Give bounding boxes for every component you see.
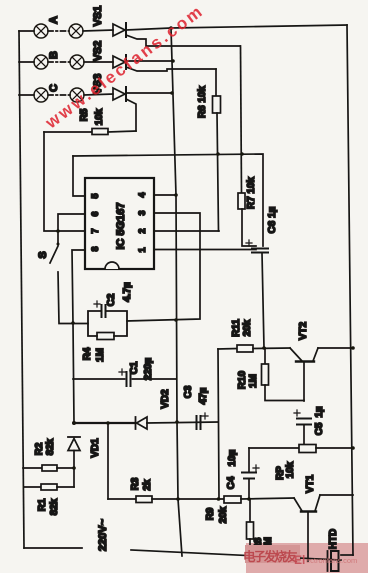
resistor R8 (247, 499, 254, 558)
lamp B2 (70, 55, 84, 69)
lamp A2 (69, 24, 83, 38)
svg-text:C5: C5 (314, 422, 325, 435)
resistor R3 (108, 496, 224, 503)
svg-text:VD2: VD2 (160, 389, 171, 409)
IC notch (105, 262, 119, 269)
resistor R1 (24, 484, 74, 490)
thyristor VS3 (113, 87, 136, 131)
resistor R10 (262, 348, 305, 401)
wire pin 1 (154, 249, 256, 251)
diode VD1 (68, 437, 80, 487)
svg-text:El: El (294, 553, 305, 567)
svg-text:1: 1 (137, 247, 147, 252)
wire lamp A2 to VS1 (83, 30, 113, 31)
resistor R2 (23, 465, 74, 471)
svg-text:ectronfans.com: ectronfans.com (306, 556, 357, 565)
watermark bottom band (246, 543, 368, 573)
resistor R7 (238, 46, 256, 246)
svg-text:B: B (48, 51, 60, 59)
svg-text:HTD: HTD (328, 529, 339, 550)
wire pin 8 down (72, 250, 85, 423)
svg-text:R1: R1 (37, 498, 48, 511)
resistor R6 (213, 69, 221, 231)
svg-text:R4: R4 (82, 347, 93, 360)
switch S blade (50, 246, 58, 263)
svg-text:4.7µ: 4.7µ (122, 282, 133, 302)
wire lamp B2 to VS2 (84, 61, 113, 63)
wire R3 drop (107, 423, 109, 499)
svg-text:VS2: VS2 (92, 41, 104, 62)
wire switch S to R4C2 node (58, 272, 88, 324)
wire VD node line (74, 422, 135, 424)
svg-text:7: 7 (90, 228, 100, 233)
svg-text:1M: 1M (248, 374, 259, 388)
wire R5 left drop to pin7 line (44, 132, 85, 231)
resistor R4 (97, 333, 114, 340)
buzzer HTD (328, 551, 354, 571)
svg-text:S: S (37, 251, 49, 258)
bottom rail left segment (220V~ gap) (24, 547, 82, 549)
svg-text:C6 1µ: C6 1µ (267, 206, 278, 233)
wire pin 4 to mid vertical (154, 194, 176, 196)
svg-text:C1: C1 (129, 361, 140, 374)
wire dashed lamp A link (48, 30, 69, 32)
resistor R11 (218, 345, 290, 352)
capacitor C6 (246, 240, 268, 348)
bottom rail right segment (131, 550, 341, 560)
lamp C1 (34, 88, 48, 102)
capacitor C3 (197, 413, 209, 429)
svg-text:6: 6 (90, 211, 100, 216)
svg-text:3: 3 (137, 210, 147, 215)
capacitor C5 (294, 410, 311, 445)
wire left mains bus (19, 31, 24, 548)
svg-text:C3: C3 (183, 385, 194, 398)
transistor VT1 (294, 495, 353, 561)
transistor VT2 (290, 348, 353, 401)
lamp C2 (70, 88, 84, 102)
wire VS2 cathode (126, 60, 173, 62)
thyristor VS1 (113, 23, 240, 46)
svg-text:R3: R3 (130, 477, 141, 490)
wire pin 6 to switch S (58, 214, 85, 244)
wire dashed lamp C link (48, 94, 70, 96)
svg-text:R11: R11 (231, 319, 242, 337)
wire right rail vertical (347, 25, 353, 555)
wire lamp C2 to VS3 (84, 94, 113, 95)
thyristor VS2 (113, 55, 216, 71)
svg-text:8: 8 (90, 246, 100, 251)
resistor R5 (44, 129, 136, 135)
svg-text:2: 2 (137, 228, 147, 233)
svg-text:C2: C2 (106, 293, 117, 306)
svg-text:82k: 82k (45, 438, 56, 455)
wire phase C row (19, 94, 34, 96)
lamp A1 (34, 24, 48, 38)
wire R11 line (218, 349, 219, 499)
resistor R9 (224, 496, 294, 503)
svg-text:10k: 10k (285, 461, 296, 478)
svg-text:C: C (48, 84, 60, 92)
svg-text:5: 5 (90, 193, 100, 198)
svg-text:220V~: 220V~ (97, 518, 109, 551)
svg-text:R7 10k: R7 10k (246, 176, 257, 209)
wire pin 2 (154, 230, 219, 232)
wire top distribution line to C6 (73, 154, 263, 246)
capacitor C1 (73, 369, 176, 386)
svg-text:20k: 20k (218, 506, 229, 523)
wire VS1 cathode to right rail (126, 25, 347, 30)
wire mid vertical (171, 28, 182, 556)
svg-text:VD1: VD1 (90, 438, 101, 458)
svg-text:20k: 20k (242, 319, 253, 336)
watermark bottom band text (245, 545, 300, 563)
svg-text:R6 10k: R6 10k (197, 85, 208, 118)
svg-text:VS1: VS1 (92, 6, 104, 27)
svg-text:R10: R10 (237, 370, 248, 389)
svg-text:4: 4 (137, 192, 147, 197)
potentiometer RP (249, 445, 353, 453)
svg-text:220µ: 220µ (143, 358, 154, 381)
svg-text:C4: C4 (226, 476, 237, 489)
svg-text:www.elecfans.com: www.elecfans.com (41, 1, 207, 133)
wire pin 5 to top distribution line (73, 156, 85, 196)
wire R4 C2 parallel loop (88, 311, 127, 336)
capacitor C2 (94, 301, 106, 317)
svg-text:IC 5G167: IC 5G167 (115, 202, 127, 249)
svg-text:A: A (48, 16, 60, 24)
svg-text:47µ: 47µ (198, 387, 209, 404)
svg-text:电子发烧友: 电子发烧友 (243, 549, 298, 564)
svg-text:2k: 2k (142, 479, 153, 491)
svg-text:10k: 10k (94, 108, 105, 125)
svg-text:10µ: 10µ (227, 449, 238, 466)
svg-text:82k: 82k (49, 498, 60, 515)
svg-text:1M: 1M (95, 348, 106, 362)
capacitor C4 (242, 448, 259, 499)
svg-text:VT1: VT1 (305, 474, 316, 493)
IC U1 5G167 box (85, 178, 154, 269)
wire phase A row (19, 30, 34, 32)
svg-text:R9: R9 (205, 507, 216, 520)
wire phase B row (19, 61, 34, 63)
wire VS3 cathode (126, 92, 172, 94)
svg-text:VT2: VT2 (298, 321, 309, 340)
svg-text:R2: R2 (34, 442, 45, 455)
wire pin 3 jog (127, 213, 200, 321)
svg-text:1µ: 1µ (314, 406, 325, 418)
diode VD2 (136, 417, 219, 429)
wire dashed lamp B link (48, 61, 70, 63)
lamp B1 (34, 55, 48, 69)
